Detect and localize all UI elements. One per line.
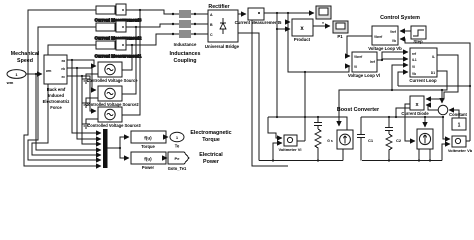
svg-text:Boost Converter: Boost Converter xyxy=(337,107,380,113)
svg-text:Constant: Constant xyxy=(449,112,467,117)
svg-text:Controlled Voltage Source3: Controlled Voltage Source3 xyxy=(87,123,141,128)
output port Te oval xyxy=(170,132,184,142)
svg-text:IL: IL xyxy=(432,55,435,59)
svg-text:Induced: Induced xyxy=(48,93,64,98)
step block xyxy=(411,26,426,39)
wire bridge minus down to bottom rail xyxy=(238,33,259,161)
svg-text:eb: eb xyxy=(61,67,65,71)
input port wm oval xyxy=(7,70,26,79)
inductor L3 row1 xyxy=(96,6,115,14)
wire to product input1 xyxy=(288,21,290,23)
wire rail B to voltmeter Vb xyxy=(443,117,450,139)
controlled current source boost input xyxy=(337,130,353,149)
scope P1 xyxy=(333,21,348,33)
svg-text:B: B xyxy=(210,23,213,27)
product block Current Diode xyxy=(410,96,424,110)
wire Vbref output to voltage loop Vl xyxy=(347,36,372,56)
sum block xyxy=(438,105,448,115)
svg-text:Product: Product xyxy=(294,37,311,42)
winding W3 xyxy=(172,33,174,35)
svg-text:Current Measurement5: Current Measurement5 xyxy=(235,20,282,25)
svg-text:Mechanical: Mechanical xyxy=(11,51,40,57)
wire D1 to switch gate and sum xyxy=(339,71,447,126)
svg-text:C2: C2 xyxy=(396,138,402,143)
svg-text:Inductance: Inductance xyxy=(174,42,197,47)
wire L2 to CM2 xyxy=(115,26,116,28)
wire CVS1 output up to row3 xyxy=(122,45,132,70)
wire bridge plus to CM5 xyxy=(238,13,246,15)
ground G1 xyxy=(82,79,90,83)
svg-text:D1: D1 xyxy=(431,71,435,75)
svg-text:wm: wm xyxy=(45,69,51,73)
wire W2 to bridge B xyxy=(195,23,208,25)
wire power to goto Pe xyxy=(166,157,167,159)
current measurement CM2 xyxy=(116,21,126,32)
wire CVS3 output up to row1 xyxy=(122,10,140,115)
svg-text:Controlled Voltage Source: Controlled Voltage Source xyxy=(86,78,138,83)
wire product to scope P1 xyxy=(313,25,330,27)
svg-text:f(u): f(u) xyxy=(144,136,152,141)
svg-text:Control System: Control System xyxy=(380,15,420,21)
svg-text:Vb: Vb xyxy=(392,39,396,43)
svg-text:Voltmeter Vl: Voltmeter Vl xyxy=(278,147,301,152)
wire Vb into current loop xyxy=(398,72,408,86)
svg-text:Electrical: Electrical xyxy=(199,152,223,158)
wire rail A to voltmeter Vl plus xyxy=(268,117,282,138)
constant block xyxy=(452,118,466,130)
inductor L1 row3 xyxy=(96,41,115,49)
junction ec tap xyxy=(81,75,83,77)
wire rail B into source top xyxy=(424,117,426,127)
wire CVS2 output up to row2 xyxy=(122,27,136,94)
wire Vl sense down and to voltage loop Vl xyxy=(288,13,350,72)
wire bottom rail to voltmeter Vb xyxy=(442,144,450,161)
svg-text:Power: Power xyxy=(203,159,219,165)
svg-text:C1: C1 xyxy=(368,138,374,143)
svg-text:Coupling: Coupling xyxy=(174,58,197,64)
svg-text:Controlled Voltage Source2: Controlled Voltage Source2 xyxy=(85,102,139,107)
svg-text:Back emf: Back emf xyxy=(47,87,66,92)
svg-text:Torque: Torque xyxy=(141,144,155,149)
rail B boost output xyxy=(361,116,443,118)
voltmeter Vb xyxy=(452,136,466,147)
svg-text:Vref: Vref xyxy=(390,30,397,34)
subsystem U-emf Back emf Induced Electromotriz Force xyxy=(44,55,67,84)
junction product tap xyxy=(287,12,289,14)
winding W2 xyxy=(172,23,174,25)
svg-text:Electromotriz: Electromotriz xyxy=(43,99,70,104)
wire CVS2 to ground G2 xyxy=(86,98,98,103)
svg-text:Vl: Vl xyxy=(412,65,415,69)
svg-text:Vl: Vl xyxy=(354,65,357,69)
mux block xyxy=(103,129,108,168)
wire CVS3 to ground G3 xyxy=(86,119,98,124)
junction D1 to sum xyxy=(441,89,443,91)
wire W1 to bridge A xyxy=(195,13,208,15)
wire CM2 to coupling winding2 xyxy=(126,24,172,27)
rail A rectified DC xyxy=(268,117,347,130)
subsystem Voltage Loop Vb xyxy=(372,26,398,45)
junction ea tap xyxy=(71,59,73,61)
ground G2 xyxy=(82,103,90,107)
wire ea to CVS1 xyxy=(67,60,96,66)
svg-text:Universal Bridge: Universal Bridge xyxy=(205,44,240,49)
inductor L2 row2 xyxy=(96,23,115,31)
current measurement CM1 xyxy=(116,39,126,50)
wire source bottom stubs to rail xyxy=(419,149,430,161)
junction product input2 xyxy=(276,28,278,30)
snubber branch R C input xyxy=(314,117,322,129)
goto tag Pe xyxy=(168,152,189,164)
wire source bottom stub xyxy=(342,149,344,161)
controlled voltage source CVS1 xyxy=(98,62,122,77)
svg-text:*: * xyxy=(322,21,324,26)
wire eb signal to mux xyxy=(77,68,101,139)
wire voltmeter Vl lower input xyxy=(273,143,282,161)
svg-text:Power: Power xyxy=(142,165,155,170)
svg-text:Vbref: Vbref xyxy=(354,55,363,59)
Fcn block Power xyxy=(131,152,166,164)
svg-text:Rectifier: Rectifier xyxy=(208,4,229,10)
junction eb tap xyxy=(76,67,78,69)
wire Vb feedback from voltmeter Vb xyxy=(400,39,470,141)
wire L1 to CM1 xyxy=(115,44,116,46)
svg-text:1: 1 xyxy=(458,123,461,129)
wire ec signal to mux xyxy=(82,76,101,144)
wire voltmeter Vl output xyxy=(297,140,305,142)
svg-text:Vb: Vb xyxy=(412,72,416,76)
svg-text:A: A xyxy=(210,13,213,17)
wire step to Vref input xyxy=(400,30,411,32)
controlled voltage source CVS2 xyxy=(98,86,122,101)
svg-text:Force: Force xyxy=(50,105,62,110)
svg-text:G s: G s xyxy=(327,139,333,143)
svg-text:f(u): f(u) xyxy=(144,157,152,162)
wire mux output split xyxy=(108,147,121,149)
controlled current source boost output xyxy=(417,129,433,149)
bottom rail input section xyxy=(259,160,343,162)
junction voltmeter Vl signal xyxy=(304,71,306,73)
wire CM3 to coupling winding1 xyxy=(126,10,172,14)
winding W1 xyxy=(172,13,174,15)
wire phase C row3 left loop to mux xyxy=(32,45,101,155)
svg-text:C: C xyxy=(210,33,213,37)
svg-text:Current Loop: Current Loop xyxy=(409,78,437,83)
svg-text:iL1: iL1 xyxy=(412,58,417,62)
wire ea signal to mux xyxy=(72,60,101,133)
voltmeter Vl xyxy=(284,135,297,146)
capacitor C1 xyxy=(357,117,365,161)
wire iL1 into current loop xyxy=(382,59,408,60)
subsystem Voltage Loop Vl xyxy=(352,52,377,72)
svg-text:Voltage Loop Vl: Voltage Loop Vl xyxy=(348,73,380,78)
svg-text:Vbref: Vbref xyxy=(374,35,383,39)
Fcn block Torque xyxy=(131,131,166,143)
diode symbol inside bridge xyxy=(220,18,226,34)
ground G3 xyxy=(82,124,90,128)
wire torque to output Te xyxy=(166,136,168,138)
wire voltmeter Vl signal down xyxy=(304,72,306,141)
current measurement CM5 xyxy=(248,8,264,20)
svg-text:Torque: Torque xyxy=(202,137,220,143)
wire Vb sense line xyxy=(398,85,470,87)
scope block xyxy=(316,6,331,19)
wire W3 to bridge C xyxy=(195,33,208,35)
current measurement CM3 xyxy=(116,4,126,15)
svg-text:Current Measurement1: Current Measurement1 xyxy=(95,54,142,59)
junction Vb sense xyxy=(469,85,471,87)
wire CM1 to coupling winding3 xyxy=(126,34,172,45)
wire current diode output to current source s xyxy=(405,104,415,141)
svg-text:ec: ec xyxy=(61,75,65,79)
wire Vl into current loop xyxy=(392,65,408,90)
wire current diode to rail B xyxy=(396,108,410,117)
load branch C2 with resistor xyxy=(385,117,393,134)
junction wm tap xyxy=(35,73,37,75)
wire iL1 return line xyxy=(252,20,288,166)
bottom rail output section xyxy=(362,160,442,162)
wire phase A row1 left loop to mux xyxy=(24,10,101,166)
svg-text:Current Diode: Current Diode xyxy=(401,111,429,116)
wire voltmeter Vb output xyxy=(466,140,470,142)
svg-text:Inductances: Inductances xyxy=(170,51,201,57)
svg-text:wm: wm xyxy=(6,80,14,85)
wire D1 down to sum block xyxy=(441,90,443,103)
svg-text:P1: P1 xyxy=(337,34,343,39)
svg-text:Electromagnetic: Electromagnetic xyxy=(190,130,231,136)
wire sum output to current diode xyxy=(426,105,438,110)
wire ec to CVS3 xyxy=(67,76,96,111)
svg-text:Te: Te xyxy=(175,144,180,149)
svg-text:Pe: Pe xyxy=(175,156,181,161)
wire CM5 output to scope xyxy=(264,12,314,14)
svg-text:Voltage Loop Vb: Voltage Loop Vb xyxy=(368,46,402,51)
svg-text:Goto_Te1: Goto_Te1 xyxy=(168,166,187,171)
junction product input1 xyxy=(287,21,289,23)
wire DC rail down xyxy=(276,13,278,117)
subsystem Current Loop xyxy=(410,48,437,77)
svg-text:Speed: Speed xyxy=(17,58,33,64)
wire IL to current diode xyxy=(426,55,458,99)
mutual inductance coupling block xyxy=(172,10,196,38)
wire constant to sum xyxy=(449,110,459,118)
universal bridge rectifier xyxy=(208,10,238,42)
wire Iref to current loop xyxy=(377,52,408,60)
wire wm tap to mux xyxy=(36,74,101,150)
wire CVS1 to ground G1 xyxy=(86,74,98,79)
wire L3 to CM3 xyxy=(115,9,116,11)
svg-text:Voltmeter Vb: Voltmeter Vb xyxy=(448,148,473,153)
wire phase B row2 left loop to mux xyxy=(28,27,101,160)
wire eb to CVS2 xyxy=(67,68,96,90)
svg-text:ea: ea xyxy=(61,59,65,63)
junction DC plus xyxy=(276,12,278,14)
wire to product input2 xyxy=(277,28,290,30)
wire wm to emf block xyxy=(26,73,42,75)
product block xyxy=(292,19,313,36)
controlled voltage source CVS3 xyxy=(98,107,122,122)
